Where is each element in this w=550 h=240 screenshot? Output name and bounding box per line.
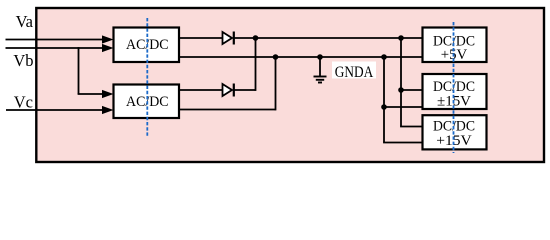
- wire riser D2 to + bus: [255, 38, 257, 91]
- wire U2 + output: [179, 89, 223, 91]
- wire + tap bus vertical: [400, 38, 402, 127]
- arrow Va into U1: [102, 35, 114, 43]
- DC/DC converter U4 ±15V: [423, 74, 487, 109]
- AC/DC converter U2: [114, 85, 180, 119]
- label GNDA: [332, 62, 376, 81]
- ground GNDA: [314, 57, 327, 83]
- DC/DC converter U3 +5V: [423, 28, 487, 64]
- diode D2: [223, 84, 234, 97]
- junction U2 return: [273, 54, 279, 60]
- arrow Vc into U2: [102, 106, 114, 114]
- arrow Vb into U2: [102, 90, 114, 98]
- wire Va input: [6, 39, 104, 41]
- arrow Vb into U1: [102, 44, 114, 52]
- wire Vb tap vertical: [78, 47, 80, 94]
- svg-text:Vc: Vc: [14, 93, 33, 112]
- DC/DC converter U5 +15V: [423, 115, 487, 149]
- junction ground tap: [317, 54, 323, 60]
- svg-text:Va: Va: [16, 12, 34, 31]
- wire - tap to U4: [384, 106, 423, 108]
- isolation dashed line through AC/DC modules: [146, 18, 148, 137]
- svg-text:Vb: Vb: [13, 51, 33, 70]
- wire Vb tap to U2: [78, 93, 104, 95]
- svg-text:GNDA: GNDA: [335, 64, 374, 81]
- junction - tap to U4: [381, 104, 387, 110]
- junction D1/D2: [253, 35, 259, 41]
- wire riser U2 return to ground bus: [275, 57, 277, 110]
- wire + tap to U4: [401, 89, 423, 91]
- junction + bus to DC/DC taps: [398, 35, 404, 41]
- junction - bus to DC/DC taps: [381, 54, 387, 60]
- power-supply block outline: [36, 8, 544, 162]
- wire + tap to U5: [400, 126, 422, 128]
- diode D1: [223, 32, 234, 45]
- wire Vc input: [6, 109, 104, 111]
- svg-text:+15V: +15V: [436, 133, 472, 149]
- wire + bus: [234, 37, 423, 39]
- wire D2 output to + bus riser: [234, 89, 256, 91]
- wire U1 - output / ground bus: [179, 56, 423, 58]
- wire U2 - output: [179, 109, 276, 111]
- wire - tap bus vertical: [383, 57, 385, 143]
- isolation dashed line through DC/DC modules: [453, 22, 455, 153]
- wire U1 + output: [179, 37, 223, 39]
- wire Vb input: [6, 47, 104, 49]
- AC/DC converter U1: [114, 28, 180, 63]
- wire - tap to U5: [383, 142, 422, 144]
- junction + tap to U4: [398, 87, 404, 93]
